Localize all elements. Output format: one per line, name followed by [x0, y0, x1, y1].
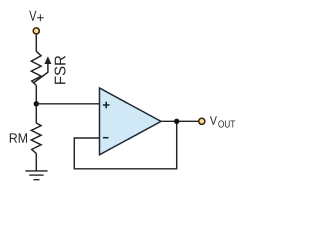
terminal V+ [33, 28, 39, 34]
label RM [10, 133, 27, 142]
wire feedback: output down, across, up to - input [74, 121, 176, 169]
wire op-amp output [161, 120, 199, 122]
resistor FSR (zigzag) [31, 51, 41, 85]
label FSR [55, 56, 66, 84]
resistor RM (zigzag) [31, 123, 41, 153]
wire V+ terminal to FSR [35, 35, 37, 52]
node junction A [34, 101, 39, 106]
wire node to op-amp + input [36, 103, 100, 105]
wire FSR to node to RM [35, 85, 37, 123]
label VOUT [210, 116, 235, 127]
op-amp U1 [100, 88, 162, 155]
op-amp - pin mark [103, 137, 109, 139]
ground [25, 171, 47, 180]
terminal VOUT [199, 118, 205, 124]
wire RM to ground [35, 153, 37, 170]
op-amp + pin mark [103, 102, 110, 109]
FSR arrow [33, 56, 51, 83]
label V+ [29, 11, 43, 22]
node output junction [174, 119, 179, 124]
